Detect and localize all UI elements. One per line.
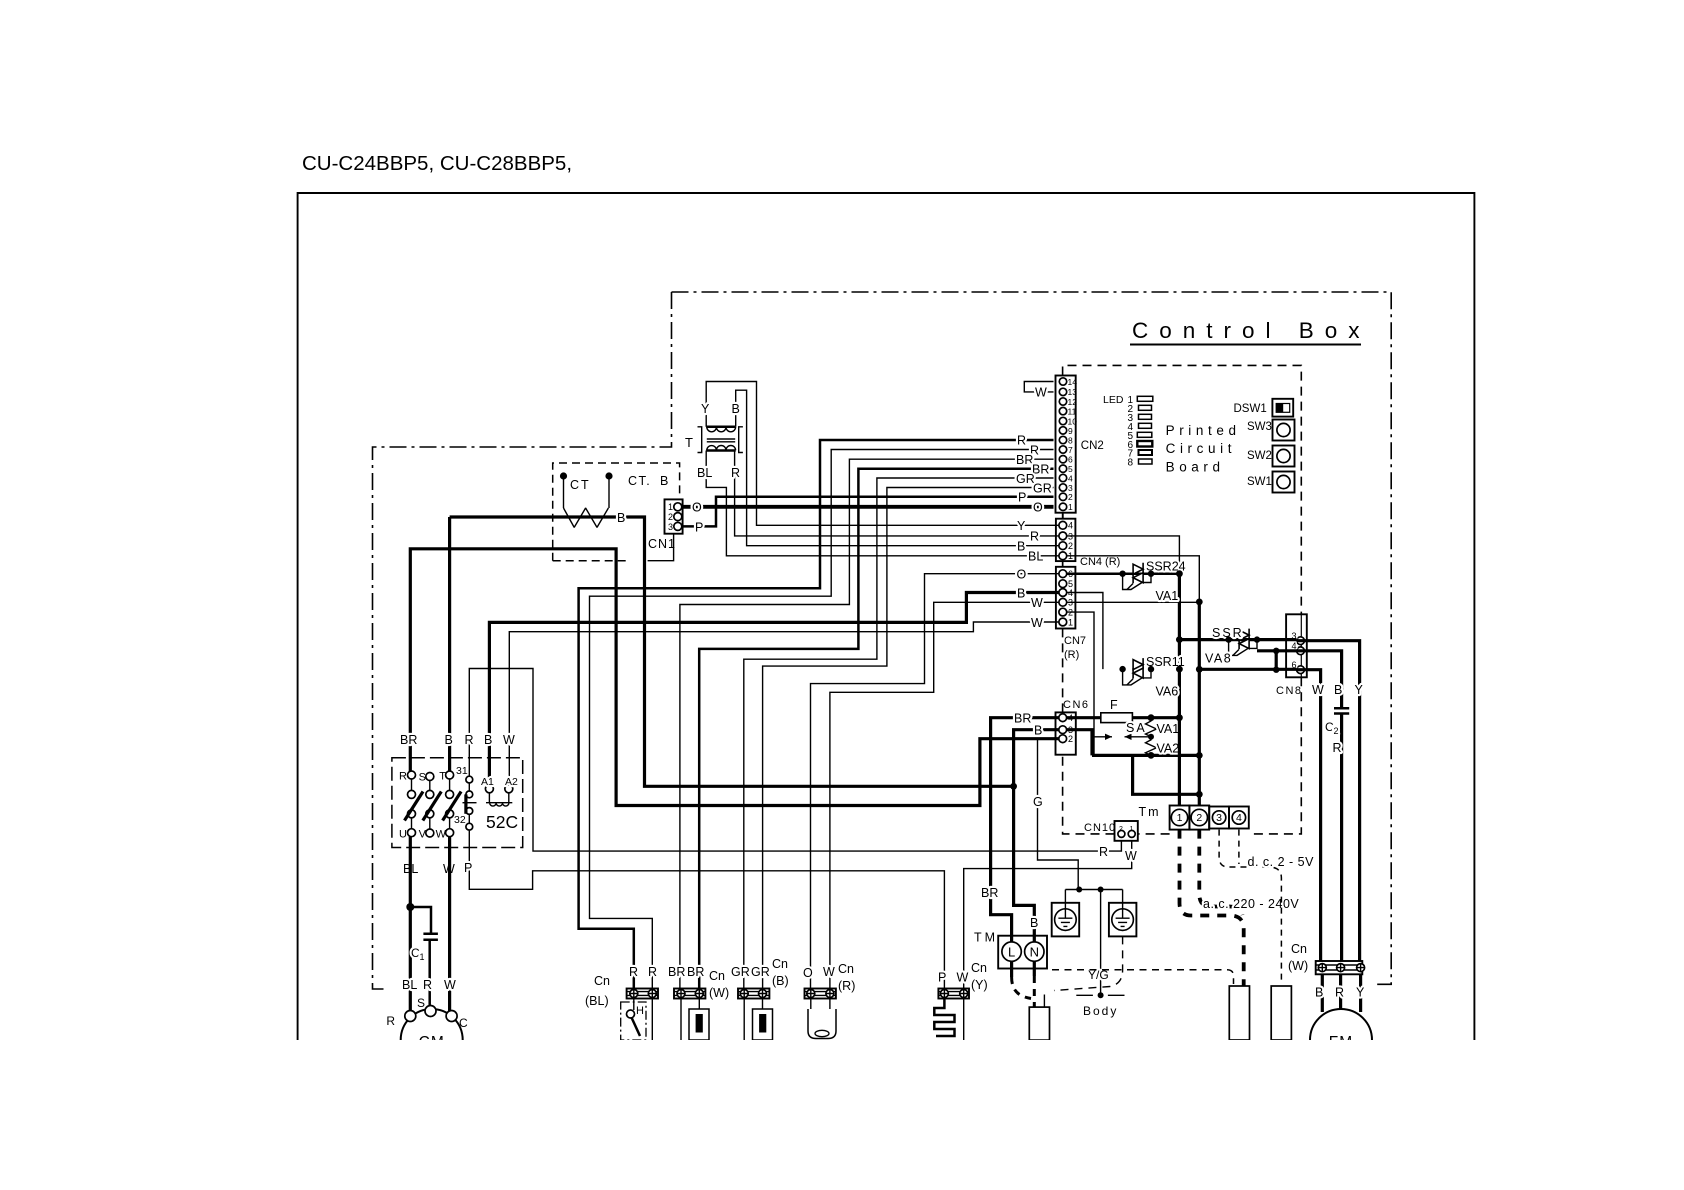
wires to fan motor [1322,974,1360,1012]
svg-text:R: R [1030,530,1039,544]
wire Y CN8-3 to Cn(W) [1297,641,1360,961]
52C labels above [400,733,515,747]
ground symbol 2 [1109,890,1137,937]
svg-text:4: 4 [1068,473,1073,483]
svg-text:R: R [465,733,474,747]
52C contact pole S-V [419,772,442,841]
svg-text:Control Box: Control Box [1132,318,1371,343]
wire O CN7-6 to Cn(R) pin O + SSR24 line to Tm1 [811,574,1059,989]
svg-text:1: 1 [1068,617,1073,627]
svg-text:B: B [1315,986,1323,1000]
svg-text:GR: GR [1033,481,1052,495]
terminal board TM with L N [998,936,1047,969]
svg-text:W: W [436,829,447,841]
transformer T [685,402,743,480]
bottom connector Cn (W) [668,965,729,1000]
wire B CN7-4 to 52C coil A1 (thick) [489,593,1059,785]
52C contact pole R-U [399,771,423,841]
wire BL 52C-U to compressor R (thick) [409,837,412,1011]
svg-text:CN4 (R): CN4 (R) [1080,556,1120,568]
svg-text:Tm: Tm [1139,805,1161,819]
svg-text:GR: GR [751,965,770,979]
svg-text:P: P [1018,491,1026,505]
svg-text:SW2: SW2 [1247,450,1272,462]
svg-text:SW1: SW1 [1247,476,1272,488]
Tm1 vertical (thick) [1178,574,1181,806]
svg-text:LED: LED [1103,394,1124,406]
svg-text:2: 2 [1068,492,1073,502]
svg-text:T: T [685,435,693,450]
svg-text:1: 1 [1068,502,1073,512]
capacitor C1 branch [410,907,431,1006]
wire W CN7-1 to 52C coil A2 [509,622,1059,785]
connector CN2 [1056,376,1076,513]
svg-text:U: U [399,829,407,841]
wire BL transformer to CN4-1 and right branch to Tm2 [706,451,1199,602]
svg-text:R: R [648,965,657,979]
connector CN4 (R) [1056,519,1076,561]
compressor motor CM [401,1009,463,1071]
svg-text:F: F [1110,698,1118,712]
junction dots [406,570,1279,911]
current transformer CT [560,472,625,527]
svg-text:R: R [1017,434,1026,448]
52C aux contact 31-32 [454,765,477,830]
svg-text:T: T [439,771,446,783]
52C bottom labels [403,861,472,876]
wire BR CN2-6 to Cn(W) pin BR [680,459,1054,988]
svg-text:8: 8 [1127,458,1133,469]
svg-text:W: W [1312,683,1324,697]
connector CN8 [1286,614,1307,677]
svg-text:Cn: Cn [772,957,788,971]
svg-text:8: 8 [1068,435,1073,445]
body earth point [1076,994,1124,996]
svg-text:1: 1 [668,502,673,512]
svg-text:(R): (R) [1064,649,1079,661]
svg-text:W: W [444,978,456,992]
svg-text:C: C [459,1016,468,1030]
wire B CT bus (thick) [450,517,1014,786]
svg-text:O: O [1033,501,1043,515]
VA rail thick to Tm2 vertical [1092,754,1199,757]
svg-text:(B): (B) [772,974,789,988]
svg-text:P: P [695,521,703,535]
svg-text:4: 4 [1068,521,1073,531]
svg-text:VA2: VA2 [1157,742,1180,756]
svg-text:SW3: SW3 [1247,421,1272,433]
magnetic contactor 52C box [392,758,523,848]
svg-text:B: B [484,733,492,747]
fan motor FM [1310,1009,1372,1071]
svg-text:B: B [1030,916,1038,930]
wire W CN10-1 to Cn(Y) pin W [964,841,1132,989]
svg-text:S: S [419,772,426,784]
svg-text:CN6: CN6 [1063,699,1090,711]
svg-text:W: W [1125,849,1137,863]
svg-text:52C: 52C [486,812,518,832]
svg-text:R: R [1099,845,1108,859]
svg-text:d. c. 2 - 5V: d. c. 2 - 5V [1248,855,1315,869]
svg-text:(W): (W) [1288,959,1308,973]
svg-text:BL: BL [402,978,417,992]
fan connector Cn (W) right [1288,942,1365,974]
wire W jumper CN2 pin14-13 [1024,382,1053,392]
a.c. plug cable [1229,986,1249,1040]
power plug body [1029,1007,1049,1040]
wire B CN7-4 right branch to SSR11 [1067,593,1103,670]
svg-text:B: B [445,733,453,747]
wire GR CN2-4 to Cn(B) pin GR [744,478,1054,989]
svg-text:CT.: CT. [628,474,651,488]
svg-text:CT: CT [570,478,591,492]
wire labels at CN7 [1017,568,1044,630]
connector CN7 (R) [1056,567,1076,629]
ground bus wire [1065,889,1122,891]
wire CN8-6 to Tm2 vertical (thick) [1199,668,1296,671]
svg-text:3: 3 [668,522,673,532]
svg-text:Printed: Printed [1166,423,1241,438]
svg-text:H: H [636,1005,644,1017]
svg-text:P: P [938,971,946,985]
svg-text:2: 2 [1334,726,1339,736]
solid state relay SSR11 [1123,655,1185,699]
svg-text:W: W [503,733,515,747]
svg-text:Cn: Cn [1291,942,1307,956]
svg-text:2: 2 [1068,734,1073,744]
bottom connector Cn (Y) [938,961,988,999]
svg-text:DSW1: DSW1 [1234,403,1267,415]
wire B CN6-3 right branch down to VA rail [1067,730,1092,756]
52C coil A1 A2 [481,776,518,806]
thermal switch H [621,999,653,1041]
svg-text:7: 7 [1068,445,1073,455]
wire R 52C aux to CN10-2 [469,669,1121,852]
svg-text:V: V [419,829,427,841]
svg-text:Body: Body [1083,1004,1118,1018]
svg-text:VA8: VA8 [1205,652,1232,666]
LED indicators LED1-8 [1103,394,1133,469]
wire B transformer to CN4-2 [736,390,1059,546]
svg-text:GR: GR [1016,472,1035,486]
svg-text:Y: Y [1356,986,1365,1000]
svg-text:R: R [1335,986,1344,1000]
svg-text:CU-C24BBP5, CU-C28BBP5,: CU-C24BBP5, CU-C28BBP5, [302,152,572,175]
solid state relay SSR24 [1123,560,1186,604]
fuse F [1101,713,1133,723]
svg-text:O: O [803,966,813,980]
svg-text:Cn: Cn [709,969,725,983]
svg-text:Cn: Cn [838,962,854,976]
svg-text:2: 2 [1068,541,1073,551]
wire R CN2-7 to Cn(BL) pin R [590,450,1054,989]
svg-text:4: 4 [1236,812,1242,824]
svg-text:13: 13 [1068,387,1078,397]
svg-text:1: 1 [420,952,425,962]
wire W CN8-6 to Cn(W) [1297,670,1321,961]
svg-text:A2: A2 [505,776,518,788]
solid state relay SSR / varistor VA8 [1179,626,1296,666]
wire B CN6-3 left to terminal TM N (thick) [1014,730,1059,943]
svg-text:BR: BR [687,965,704,979]
svg-text:11: 11 [1068,407,1077,417]
svg-text:W: W [1035,386,1047,400]
wire B CT to 52C contact T (thick) [448,517,451,775]
svg-text:L: L [1008,945,1015,960]
svg-text:P: P [464,861,472,875]
svg-text:1: 1 [1177,812,1183,824]
jumper CN8 pin4-pin6 [1257,651,1297,670]
svg-text:B: B [1034,723,1042,737]
capacitor C2 [1334,708,1349,713]
current transformer CT box (dashed) [553,463,680,561]
svg-text:SA: SA [1126,721,1147,735]
wire labels at CN6 [1014,711,1043,809]
svg-text:CN2: CN2 [1081,440,1104,452]
wire BR CN6-4 right through fuse F to Tm1 vertical [1067,716,1180,719]
svg-text:B: B [1334,683,1342,697]
svg-text:BR: BR [1016,453,1033,467]
svg-text:G: G [1033,795,1043,809]
svg-text:2: 2 [1196,812,1202,824]
svg-text:Board: Board [1166,460,1225,475]
svg-text:(BL): (BL) [585,994,609,1008]
crankcase heater under Cn(Y) [934,999,954,1037]
wire B/R CN8-4 to Cn(W) with capacitor C2 [1297,651,1342,961]
power cord leads from TM [1010,961,1013,977]
svg-text:(R): (R) [838,979,855,993]
svg-text:W: W [1031,616,1043,630]
earth dashed lead to plug [1054,936,1123,990]
d.c. plug cable [1271,986,1291,1040]
svg-text:R: R [399,771,407,783]
svg-text:S: S [417,996,425,1010]
bottom connector Cn (R) [803,962,855,999]
wire Y/G to body earth [1100,890,1102,994]
bottom connector Cn (BL) [585,965,658,1008]
svg-text:R: R [1333,741,1342,755]
svg-text:Circuit: Circuit [1166,441,1236,456]
svg-text:Y: Y [701,402,710,416]
wire GR CN2-3 to Cn(B) pin GR [763,488,1054,989]
svg-text:R: R [629,965,638,979]
wire BR CN6-4 left to terminal TM L (thick) [991,718,1059,943]
svg-text:R: R [386,1014,395,1028]
wire R CN2-8 to Cn(BL) pin R [579,440,1054,989]
svg-text:BR: BR [400,733,417,747]
wire O CN2-1 to CN1-1 (thick) [682,505,1054,509]
svg-text:W: W [823,965,835,979]
Tm2 vertical (thick) [1198,602,1201,806]
svg-text:A1: A1 [481,776,494,788]
capacitor C1 [423,934,438,940]
wire Y transformer to CN4-4 [706,382,1059,526]
surge absorber SA spark gap [1092,736,1151,738]
control box dash-dot boundary [373,292,1392,989]
wire CN7-2 down to VA rail [1067,612,1094,755]
svg-text:B: B [1017,539,1025,553]
bottom connector Cn (B) [731,957,789,999]
svg-text:N: N [1030,945,1039,960]
svg-text:O: O [1017,568,1027,582]
svg-text:R: R [423,978,432,992]
wire W CN7-3 to Cn(R) pin W [830,602,1059,988]
svg-text:BR: BR [668,965,685,979]
svg-text:BL: BL [1028,550,1043,564]
svg-text:2: 2 [668,512,673,522]
wire W CN7-3 right branch to Tm2 vertical [1067,601,1200,603]
svg-text:GR: GR [731,965,750,979]
wire R transformer to CN4-3 and right branch to Tm1 [735,451,1180,574]
wire labels at CN4 [1017,519,1043,564]
svg-text:6: 6 [1068,455,1073,465]
svg-text:Cn: Cn [971,961,987,975]
wire P CN2-2 to CN1-3 [682,497,1054,527]
PCB dashed boundary [1063,365,1302,834]
outer page border [298,193,1475,1040]
svg-text:(W): (W) [709,986,729,1000]
svg-text:CN7: CN7 [1064,635,1086,647]
svg-text:14: 14 [1068,377,1078,387]
svg-text:B: B [732,402,740,416]
wire G CN6-2 to ground junction [1038,739,1079,890]
svg-text:O: O [692,501,702,515]
thick link VA rail to Tm2 bottom [1133,755,1200,794]
solenoid coil under Cn(B) [744,999,762,1041]
Printed Circuit Board text [1166,423,1241,475]
svg-text:B: B [1017,586,1025,600]
svg-text:9: 9 [1068,426,1073,436]
sensor bulb under Cn(R) [811,999,830,1010]
connector CN1 [665,499,683,533]
wire BR 52C to loop via CN6-2 circuit (thick) [410,549,1059,806]
svg-text:12: 12 [1068,397,1078,407]
svg-text:VA1: VA1 [1157,722,1180,736]
d.c. control dashed leads [1219,830,1281,982]
svg-text:BR: BR [1014,711,1031,725]
svg-text:W: W [1031,596,1043,610]
a.c. supply dashed leads [1180,830,1244,986]
svg-text:CN10: CN10 [1084,822,1116,834]
svg-text:3: 3 [1216,812,1222,824]
ground symbol 1 [1052,890,1080,937]
svg-text:Y: Y [1355,683,1364,697]
svg-text:VA1: VA1 [1156,589,1179,603]
Control Box underline [1130,344,1361,346]
svg-text:CN1: CN1 [648,537,676,551]
varistor VA1 [1146,718,1157,737]
svg-text:Cn: Cn [594,974,610,988]
svg-text:TM: TM [974,931,998,945]
svg-text:R: R [731,466,740,480]
wire W 52C-W to compressor C (thick) [448,837,451,1011]
svg-text:a. c. 220 - 240V: a. c. 220 - 240V [1203,897,1299,911]
52C contact pole T-W [436,771,461,841]
solenoid coil under Cn(W) [681,999,699,1041]
svg-text:B: B [617,511,625,525]
varistor VA2 [1146,737,1157,756]
svg-text:B: B [660,474,668,488]
svg-text:(Y): (Y) [971,978,988,992]
wire labels at CN2 [1016,386,1052,515]
svg-text:BR: BR [981,886,998,900]
wire P 52C aux to Cn(Y) pin P [469,831,944,989]
svg-text:32: 32 [454,814,466,826]
svg-text:VA6: VA6 [1156,685,1179,699]
wire BR CN2-5 to Cn(W) pin BR [699,469,1053,989]
svg-text:BL: BL [697,466,712,480]
svg-text:W: W [957,971,969,985]
svg-text:31: 31 [456,765,468,777]
svg-text:CN8: CN8 [1276,685,1303,697]
svg-text:Y: Y [1017,519,1026,533]
